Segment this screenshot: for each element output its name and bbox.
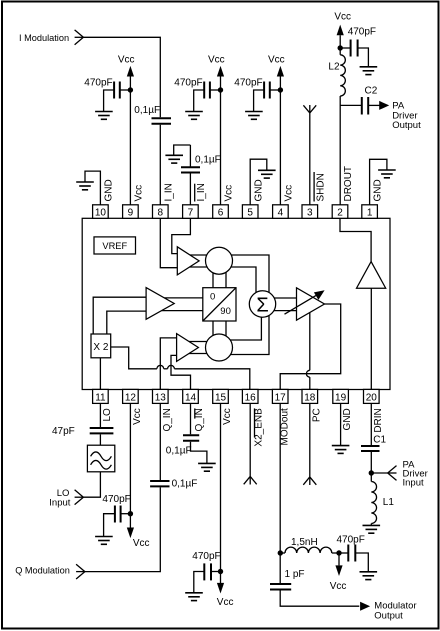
node junction dot after inductor <box>336 550 341 555</box>
svg-text:Vcc: Vcc <box>224 185 235 202</box>
svg-text:Input: Input <box>49 497 70 508</box>
svg-text:C1: C1 <box>373 435 386 446</box>
svg-text:1 pF: 1 pF <box>285 569 305 580</box>
svg-text:Vcc: Vcc <box>132 408 143 425</box>
pin 14 <box>183 389 199 403</box>
svg-text:Vcc: Vcc <box>208 55 225 66</box>
wire I modulation to coupling cap <box>83 37 160 117</box>
VREF block <box>94 237 136 254</box>
svg-text:GND: GND <box>342 408 353 430</box>
wire Vcc to pin 9 <box>129 77 131 205</box>
ground at pin 10 <box>76 182 94 190</box>
capacitor 0.1uF at pin 7 <box>181 155 221 173</box>
wire pin14 to bypass cap <box>190 403 192 434</box>
svg-text:Vcc: Vcc <box>334 12 351 23</box>
wire pin12 Vcc down <box>129 403 131 527</box>
wire pin16 X2_ENB control <box>249 403 251 484</box>
wire dot to inductor <box>280 552 285 554</box>
wire A1 to mixer M1 differential pair <box>190 255 208 267</box>
capacitor 0.1uF Q-input coupling <box>150 478 197 489</box>
pin label Vcc (top, x=220.5) <box>224 185 235 202</box>
svg-text:Vcc: Vcc <box>330 581 347 592</box>
wire pin18 PC control <box>309 403 311 485</box>
power Vcc at pin 6 <box>208 55 225 77</box>
svg-text:20: 20 <box>366 392 378 403</box>
pin label Q_IN (bottom, x=160.3) <box>162 408 173 431</box>
capacitor 0.1uF I-input coupling <box>134 105 171 124</box>
pin label SHDN (top, x=309.8) <box>314 172 326 202</box>
svg-text:2: 2 <box>337 207 343 218</box>
power Vcc at pin 9 <box>118 55 135 77</box>
wire cap to junction and ground <box>194 90 221 112</box>
pin label I_IN (top, x=160.3) <box>163 183 174 201</box>
svg-text:C2: C2 <box>365 85 378 96</box>
pin label I_IN (top, x=190.4) <box>195 183 207 201</box>
ground at pin 19 <box>332 446 350 454</box>
wire pin18 PC to VGA (lower segment) <box>309 377 311 389</box>
pin label MODout (bottom, x=280.2) <box>280 408 291 445</box>
svg-text:470pF: 470pF <box>84 78 112 89</box>
capacitor 470pF at pin 9 <box>84 78 120 99</box>
wire pin7 bypass cap to ground <box>174 145 191 155</box>
node junction dot MODout <box>278 550 283 555</box>
ground at L1 <box>363 525 381 533</box>
pin label Vcc (top, x=130.4) <box>134 185 145 202</box>
pin 9 <box>123 205 139 219</box>
pin label GND (top, x=250.2) <box>253 179 264 201</box>
svg-text:16: 16 <box>245 392 257 403</box>
svg-text:13: 13 <box>155 392 167 403</box>
pin label DROUT (top, x=340.0) <box>343 166 354 202</box>
pin 7 <box>183 205 199 219</box>
pin 3 <box>302 205 318 219</box>
svg-text:8: 8 <box>158 207 164 218</box>
wire pin13 to Q amp upper input <box>160 338 176 390</box>
node LO Input <box>49 488 83 508</box>
node Modulator Output <box>360 601 416 622</box>
node I Modulation input <box>19 30 83 45</box>
wire pin7 cap leads <box>189 145 191 205</box>
power Vcc below pin 12 <box>127 528 150 549</box>
svg-text:470pF: 470pF <box>234 78 262 89</box>
pin label Vcc (top, x=280.4) <box>284 185 295 202</box>
X2 frequency doubler block <box>91 334 111 358</box>
wire X2 enable middle segment <box>164 368 168 370</box>
wire VGA output to pin 17 MODout <box>280 304 341 389</box>
svg-text:10: 10 <box>95 207 107 218</box>
wire pin14 to Q amp lower input <box>171 355 191 389</box>
svg-text:Output: Output <box>374 610 403 621</box>
pin 13 <box>153 389 169 403</box>
svg-text:DROUT: DROUT <box>343 166 354 202</box>
wire hop PC over MODout wire <box>306 370 309 377</box>
pin 17 <box>272 389 288 403</box>
capacitor C2 <box>362 85 378 114</box>
pin 18 <box>302 389 318 403</box>
wire pin18 PC to VGA (upper segment) <box>309 312 311 370</box>
wire pin11 to 47pF <box>99 403 101 427</box>
node junction dot pin9 <box>128 87 133 92</box>
filter FL1 (LO bandpass) <box>87 445 114 472</box>
op-amp A1 I-channel buffer <box>177 247 199 275</box>
wire SHDN to pin 3 <box>309 105 311 205</box>
node junction dot pin12 <box>128 511 133 516</box>
svg-text:Σ: Σ <box>256 294 268 316</box>
capacitor 470pF at pin 6 <box>174 78 210 99</box>
node PA Driver Output <box>379 101 421 131</box>
wire cap to ground <box>191 442 207 464</box>
svg-text:L1: L1 <box>383 497 395 508</box>
svg-text:17: 17 <box>275 392 287 403</box>
wire X2 enable to pin 16 <box>174 369 249 390</box>
node junction dot pin15 <box>218 569 223 574</box>
svg-text:Vcc: Vcc <box>268 55 285 66</box>
wire filter to LO input <box>83 472 100 497</box>
wire Vcc to pin 4 <box>279 77 281 205</box>
pin 20 <box>364 389 380 403</box>
wire cap to node and ground <box>340 48 368 67</box>
ground at pin 1 <box>378 170 396 178</box>
node junction dot pin4 <box>278 87 283 92</box>
pin 11 <box>93 389 109 403</box>
svg-text:I Modulation: I Modulation <box>19 33 69 43</box>
capacitor 470pF at pin 15 <box>192 551 220 580</box>
ground at pin 6 cap <box>185 112 203 120</box>
pin 1 <box>362 205 378 219</box>
wire pin19 to ground <box>340 403 342 445</box>
svg-text:14: 14 <box>185 392 197 403</box>
inductor L2 <box>328 55 345 96</box>
svg-text:Vcc: Vcc <box>118 55 135 66</box>
pin label Q_IN (bottom, x=190.5) <box>194 408 205 431</box>
wire pin20 to C1 <box>370 403 372 445</box>
svg-text:470pF: 470pF <box>348 26 376 37</box>
pin label PC (bottom, x=309.8) <box>311 408 322 422</box>
wire L2 to pin 2 DROUT <box>339 96 341 205</box>
node PC control arrow <box>303 477 316 485</box>
pin 16 <box>242 389 258 403</box>
inductor 1,5nH <box>285 537 332 553</box>
op-amp A3 LO buffer <box>146 288 174 320</box>
svg-text:GND: GND <box>373 179 384 201</box>
capacitor 470pF at matching node <box>337 534 365 561</box>
svg-text:GND: GND <box>253 179 264 201</box>
svg-text:0,1µF: 0,1µF <box>166 445 192 456</box>
mixer M2 (Q mixer circle) <box>206 334 233 361</box>
wire cap to Q modulation <box>85 487 160 571</box>
pin 8 <box>153 205 169 219</box>
ground at pin 15 cap <box>185 593 203 601</box>
IC U1 quadrature modulator body <box>82 218 390 389</box>
pin 10 <box>93 205 109 219</box>
ground at pin 12 cap <box>95 537 113 545</box>
svg-text:Vcc: Vcc <box>222 408 233 425</box>
ground at pin 14 cap <box>198 463 216 471</box>
wire pin5 to ground <box>250 159 267 205</box>
pin label DRIN (bottom, x=371.3) <box>373 408 384 432</box>
ground at pin 7 cap <box>165 155 183 163</box>
wire C1 to PA driver input node <box>370 452 372 482</box>
pin label X2_ENB (bottom, x=250.2) <box>254 408 265 447</box>
ground at pin 9 cap <box>95 112 113 120</box>
pin label LO (bottom, x=100.4) <box>102 408 113 422</box>
svg-text:47pF: 47pF <box>52 426 75 437</box>
wire pin7 to I amp upper input <box>172 218 191 253</box>
wire pin11 LO to X2 <box>99 358 101 390</box>
ground at DROUT cap <box>360 67 378 75</box>
wire M1 output lower to summer top <box>231 267 256 292</box>
wire C2 to PA driver output arrow <box>368 104 379 106</box>
pin 5 <box>242 205 258 219</box>
wire 47pF to filter <box>99 434 101 445</box>
op-amp A4 driver amplifier <box>357 262 386 289</box>
svg-text:Vcc: Vcc <box>133 538 150 549</box>
svg-text:Vcc: Vcc <box>217 597 234 608</box>
svg-text:4: 4 <box>278 207 284 218</box>
node PA Driver Input <box>371 459 428 488</box>
svg-text:3: 3 <box>307 207 313 218</box>
capacitor C1 <box>361 435 387 452</box>
wire M1 to phase splitter (0/90) pair <box>213 272 226 287</box>
wire cap to junction and to ground <box>104 90 131 112</box>
power Vcc below matching node <box>330 553 347 592</box>
pin label GND (top, x=100.4) <box>104 179 115 201</box>
wire cap to junction and ground <box>194 572 221 593</box>
wire M2 output upper to summer bottom <box>230 316 261 340</box>
svg-text:Q Modulation: Q Modulation <box>15 566 70 576</box>
svg-text:0,1µF: 0,1µF <box>172 478 198 489</box>
svg-text:1: 1 <box>367 207 373 218</box>
svg-text:GND: GND <box>104 179 115 201</box>
wire pin13 to coupling cap <box>159 403 161 480</box>
wire pin15 Vcc down <box>220 403 222 584</box>
node SHDN control arrow <box>303 105 316 113</box>
svg-text:18: 18 <box>304 392 316 403</box>
wire Vcc to L2 node <box>339 35 341 55</box>
inductor L1 <box>371 482 394 524</box>
power Vcc below pin 15 <box>217 583 234 608</box>
svg-text:Vcc: Vcc <box>284 185 295 202</box>
wire Vcc to pin 6 <box>220 77 222 205</box>
svg-text:12: 12 <box>125 392 137 403</box>
svg-text:I_IN: I_IN <box>196 183 207 201</box>
svg-text:90: 90 <box>220 306 231 317</box>
power Vcc at L2 <box>334 12 351 36</box>
svg-text:470pF: 470pF <box>102 494 130 505</box>
capacitor 470pF at pin 12 <box>102 494 130 523</box>
pin 2 <box>332 205 348 219</box>
capacitor 0.1uF at pin 14 <box>166 435 199 456</box>
wire M1 output upper to summer right side <box>231 255 269 293</box>
pin 15 <box>213 389 229 403</box>
wire pin20 DRIN to driver amp input <box>370 288 372 389</box>
svg-text:VREF: VREF <box>102 241 127 251</box>
pin label GND (top, x=369.6) <box>373 179 384 201</box>
wire X2 to LO amp lower input <box>107 311 146 334</box>
svg-text:7: 7 <box>188 207 194 218</box>
svg-text:19: 19 <box>335 392 347 403</box>
svg-text:L2: L2 <box>328 61 340 72</box>
wire X2 to LO amp upper input <box>93 297 146 334</box>
svg-text:DRIN: DRIN <box>373 408 384 432</box>
svg-text:I_IN: I_IN <box>163 183 174 201</box>
wire pin17 MODout down <box>279 403 281 583</box>
wire summer to VGA differential pair <box>274 298 297 311</box>
summer (sigma adder) <box>249 291 275 317</box>
svg-text:6: 6 <box>218 207 224 218</box>
svg-text:LO: LO <box>102 408 113 422</box>
svg-text:SHDN: SHDN <box>316 173 327 201</box>
wire M2 output lower to summer right side <box>231 315 270 354</box>
svg-text:0,1µF: 0,1µF <box>134 105 160 116</box>
svg-text:0,1µF: 0,1µF <box>195 155 221 166</box>
svg-text:Vcc: Vcc <box>134 185 145 202</box>
capacitor 1 pF <box>270 569 305 589</box>
capacitor 47pF <box>52 426 113 437</box>
wire cap to pin 8 <box>159 125 161 205</box>
svg-text:Q_IN: Q_IN <box>162 408 173 431</box>
pin 19 <box>333 389 349 403</box>
svg-text:1,5nH: 1,5nH <box>291 537 318 548</box>
pin label GND (bottom, x=340.6) <box>342 408 353 430</box>
mixer M1 (I mixer circle) <box>206 247 233 274</box>
svg-text:470pF: 470pF <box>174 78 202 89</box>
ground at matching cap <box>360 572 378 580</box>
ground at pin 5 <box>258 170 276 178</box>
pin 6 <box>213 205 229 219</box>
node junction dot L2 top <box>338 45 343 50</box>
wire pin1 to ground <box>370 159 387 205</box>
capacitor 470pF at DROUT <box>348 26 376 56</box>
svg-text:5: 5 <box>247 207 253 218</box>
svg-text:9: 9 <box>128 207 134 218</box>
wire driver amp output to pin 2 DROUT <box>340 218 371 261</box>
wire pin8 to I amp lower input <box>160 218 177 267</box>
svg-text:470pF: 470pF <box>192 551 220 562</box>
node Q Modulation input <box>15 564 85 579</box>
svg-text:X 2: X 2 <box>93 342 108 353</box>
wire cap to junction and ground <box>254 90 281 112</box>
svg-text:15: 15 <box>215 392 227 403</box>
wire L1 to ground <box>370 524 372 526</box>
svg-text:Output: Output <box>392 120 421 131</box>
svg-text:Input: Input <box>403 478 424 489</box>
svg-text:11: 11 <box>95 392 106 403</box>
op-amp A2 Q-channel buffer <box>177 334 199 362</box>
wire 1pF to modulator output arrow <box>280 590 359 607</box>
svg-text:470pF: 470pF <box>337 534 365 545</box>
power Vcc at pin 4 <box>268 55 285 77</box>
pin 4 <box>273 205 289 219</box>
wire A3 to 0/90 differential pair <box>162 298 203 311</box>
phase splitter 0/90 block <box>203 288 236 321</box>
svg-text:PC: PC <box>311 408 322 422</box>
wire 0/90 to mixer M2 pair <box>213 321 226 336</box>
wire cap to node and ground <box>339 553 368 572</box>
pin label Vcc (bottom, x=130.4) <box>132 408 143 425</box>
wire cap to junction and ground <box>104 514 131 537</box>
wire hop X2_ENB over pin14 wire <box>168 365 175 368</box>
wire DROUT node to C2 <box>340 104 361 106</box>
svg-text:0: 0 <box>210 292 215 303</box>
svg-text:MODout: MODout <box>280 408 291 445</box>
pin 12 <box>123 389 139 403</box>
wire hop X2_ENB over pin13 wire <box>157 365 164 368</box>
wire X2 enable from X2 block (left segment) <box>111 347 157 369</box>
capacitor 470pF at pin 4 <box>234 78 269 99</box>
variable gain amplifier VGA <box>285 288 325 320</box>
ground at pin 4 cap <box>245 112 263 120</box>
wire A2 to mixer M2 differential pair <box>189 342 207 354</box>
node junction dot PA driver input <box>369 470 374 475</box>
wire inductor to node <box>332 552 339 554</box>
pin label Vcc (bottom, x=220.5) <box>222 408 233 425</box>
node junction dot pin6 <box>218 87 223 92</box>
wire pin10 to ground <box>85 171 100 205</box>
node X2_ENB control arrow <box>244 476 257 484</box>
